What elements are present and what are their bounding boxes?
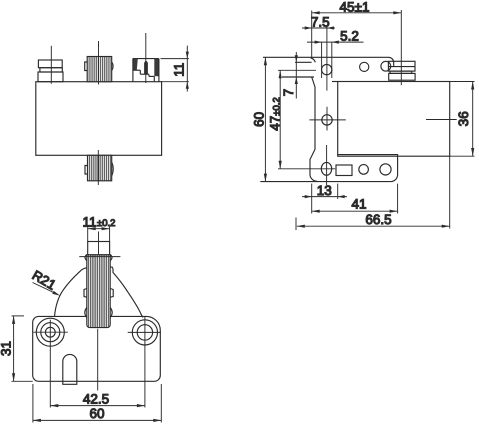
dimension 60 (view B) xyxy=(264,57,266,181)
top hole in flange bend xyxy=(322,64,332,74)
body right edge extended down to 66.5 dim xyxy=(449,156,451,228)
terminal stud on top plate (view B) xyxy=(381,61,391,71)
bottom plate bottom edge (with 60 extension collinear) xyxy=(260,181,390,183)
bottom plate hole 1 xyxy=(359,165,369,175)
dimension 60 (view C) xyxy=(32,384,34,423)
bottom plate slot xyxy=(336,165,352,176)
dimension 11 (view A) extension lines xyxy=(161,58,189,60)
threaded stud S1 (top middle) xyxy=(85,57,113,82)
svg-text:7: 7 xyxy=(281,89,296,97)
bottom plate hole 2 xyxy=(380,164,391,175)
bottom hole horizontal centerline (47 bottom extension) xyxy=(278,168,335,170)
svg-text:45±1: 45±1 xyxy=(340,0,370,14)
dimension 47±0.2 xyxy=(278,69,316,71)
dimension 7.5 xyxy=(302,27,335,29)
dimension 42.5 xyxy=(50,405,145,407)
middle hole of flange xyxy=(322,115,332,125)
stud top unthreaded rect xyxy=(88,242,110,255)
dimension 5.2 xyxy=(307,41,364,43)
svg-text:31: 31 xyxy=(0,341,13,356)
bend fillet xyxy=(311,58,316,63)
svg-text:11: 11 xyxy=(171,63,186,77)
terminal centerline (also 45 right extension) xyxy=(400,10,402,85)
top hole vertical centerline (7.5 right extension) xyxy=(326,26,328,91)
dimension 13 xyxy=(311,184,313,214)
dimension 11±0.2 dimension line xyxy=(88,228,110,230)
dimension 11±0.2 extension lines xyxy=(87,226,89,242)
right hole crosshair xyxy=(128,331,161,333)
svg-text:36: 36 xyxy=(456,111,471,126)
centerline of stud S1 xyxy=(98,41,100,85)
mounting step bottom edge xyxy=(282,76,314,78)
hole in top plate xyxy=(360,62,369,71)
stud mid tabs xyxy=(84,289,87,298)
terminal stack T1 (left, on top of body) xyxy=(38,60,63,82)
slot edge lines (5.2 slot) xyxy=(321,42,323,78)
svg-text:5.2: 5.2 xyxy=(340,29,359,44)
R21 leader and label xyxy=(33,283,57,294)
right mounting hole xyxy=(132,320,157,345)
svg-text:66.5: 66.5 xyxy=(365,212,391,227)
stud vertical centerline (top) xyxy=(98,232,100,256)
threaded stud S2 (bottom of body) xyxy=(85,155,113,181)
bottom hole of flange xyxy=(321,162,331,175)
dimension 7 xyxy=(295,52,297,99)
body bottom edge extension right (for 36) xyxy=(450,155,475,157)
dome (R21 arc) right xyxy=(110,267,143,317)
body rectangle (view B) xyxy=(338,82,450,157)
svg-text:±0.2: ±0.2 xyxy=(97,218,115,229)
body outline (side view) xyxy=(36,82,162,156)
left hole crosshair xyxy=(33,331,68,333)
flange left edge slant below step xyxy=(310,77,317,181)
dimension 36 xyxy=(472,82,474,157)
stud lower tabs (at plate) xyxy=(85,308,87,318)
base plate outline xyxy=(33,316,161,381)
dimension 41 xyxy=(397,184,399,214)
stud horizontal centerline xyxy=(79,256,120,258)
svg-text:60: 60 xyxy=(89,406,104,421)
svg-text:41: 41 xyxy=(351,196,366,211)
svg-text:7.5: 7.5 xyxy=(311,15,330,30)
sectioned nut N1 (top right) xyxy=(133,59,159,82)
dimension 66.5 xyxy=(295,218,297,231)
dome (R21 arc) left xyxy=(55,268,87,317)
stud upper right tab xyxy=(110,255,112,261)
centerline of nut N1 xyxy=(145,33,147,83)
threaded stud column (view C) xyxy=(87,255,110,328)
top plate top edge (with 60 extension collinear) xyxy=(263,57,394,66)
centerline of stud S2 xyxy=(97,150,99,185)
stud centerline below xyxy=(97,329,99,391)
dimension 45±1 xyxy=(311,11,313,58)
svg-text:60: 60 xyxy=(252,112,267,127)
svg-text:11: 11 xyxy=(83,214,97,229)
left mounting hole (boss, counterbore, hole) xyxy=(36,318,64,346)
bottom plate right end xyxy=(338,155,398,182)
dimension 11 (view A) dimension line xyxy=(186,46,188,92)
body top edge extension right (for 36) xyxy=(450,81,475,83)
mounting step top edge xyxy=(295,61,312,63)
dimension 31 xyxy=(12,315,25,317)
body horizontal centerline tick at right edge xyxy=(426,119,457,121)
svg-text:13: 13 xyxy=(317,183,332,198)
svg-text:R21: R21 xyxy=(30,267,59,292)
centerline of terminal T1 xyxy=(50,46,52,84)
svg-text:47±0.2: 47±0.2 xyxy=(267,97,282,130)
svg-text:42.5: 42.5 xyxy=(83,392,109,407)
keyhole slot xyxy=(63,354,77,384)
